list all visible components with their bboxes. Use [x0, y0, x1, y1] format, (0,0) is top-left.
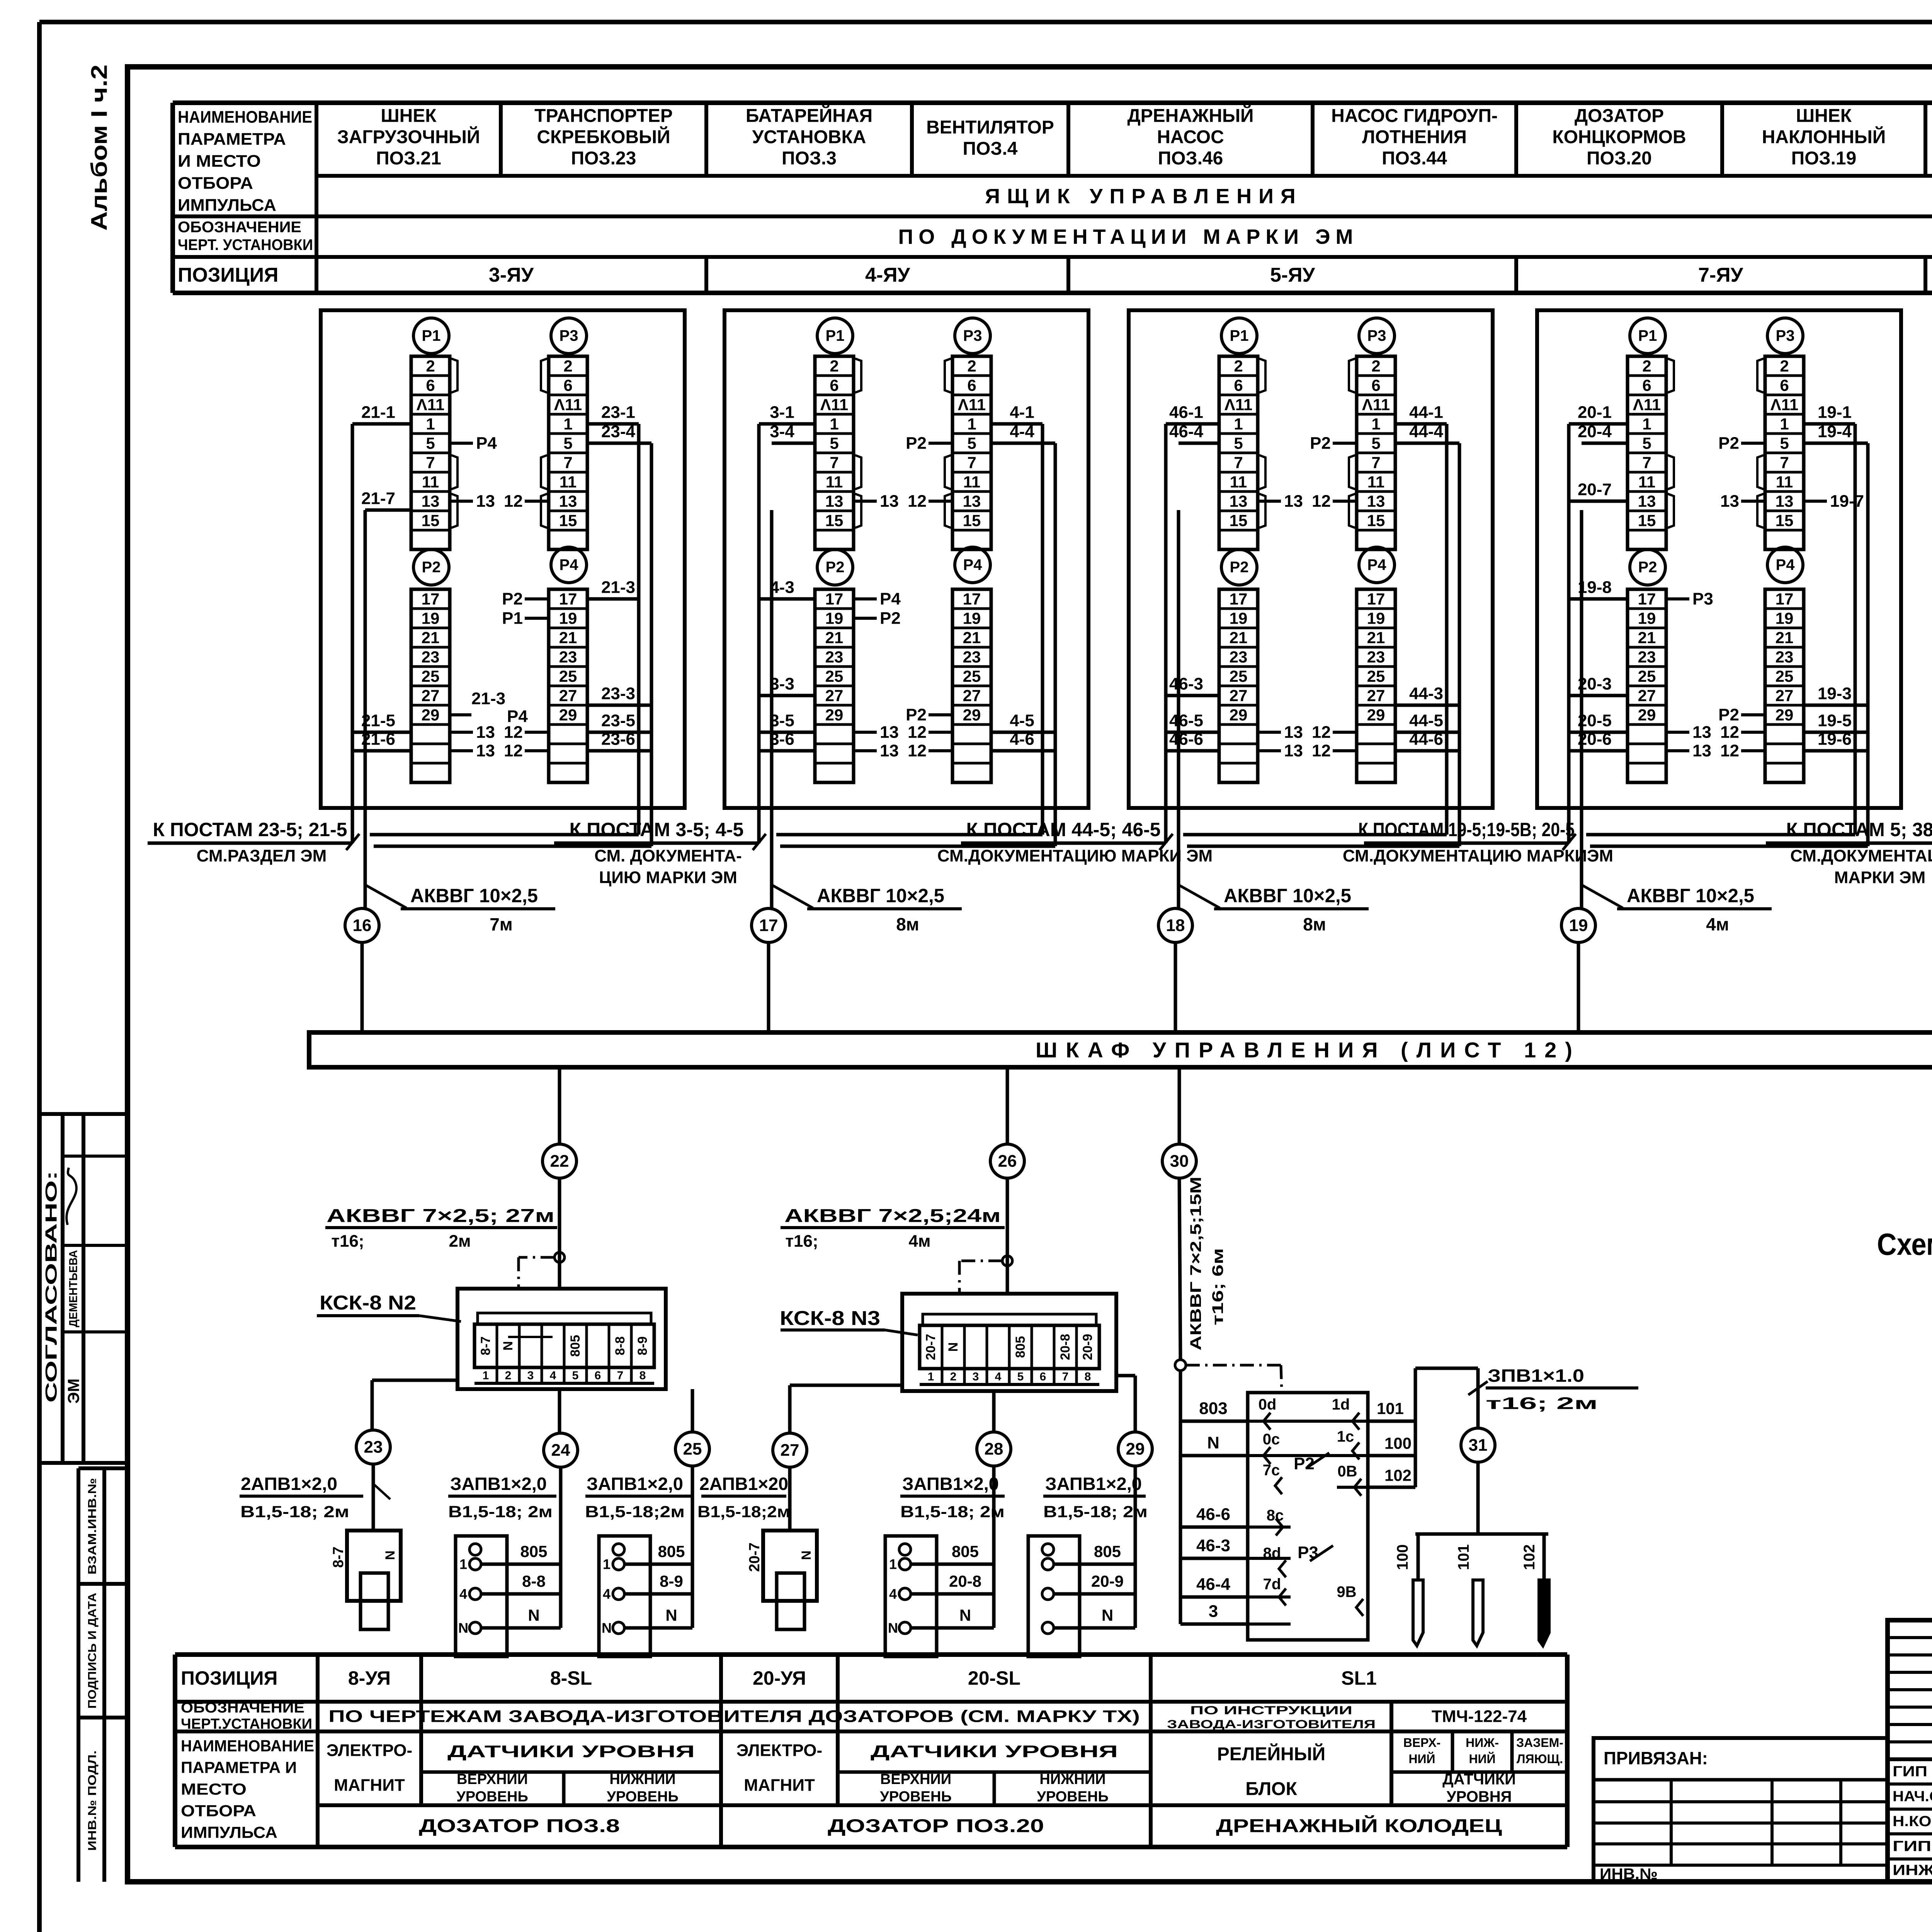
- svg-text:МЕСТО: МЕСТО: [181, 1780, 247, 1798]
- svg-text:20-7: 20-7: [1578, 480, 1612, 499]
- svg-text:46-6: 46-6: [1169, 730, 1203, 749]
- svg-text:11: 11: [963, 473, 980, 491]
- svg-text:46-4: 46-4: [1169, 422, 1204, 441]
- svg-text:22: 22: [550, 1152, 569, 1171]
- svg-text:23-6: 23-6: [601, 730, 635, 749]
- svg-text:3-6: 3-6: [770, 730, 794, 749]
- svg-text:8d: 8d: [1263, 1545, 1281, 1562]
- svg-text:0d: 0d: [1259, 1396, 1277, 1413]
- svg-text:КОНЦКОРМОВ: КОНЦКОРМОВ: [1552, 127, 1686, 148]
- svg-text:P3: P3: [1367, 327, 1386, 344]
- svg-text:11: 11: [826, 473, 843, 491]
- svg-text:25: 25: [1776, 667, 1794, 685]
- svg-text:ШНЕК: ШНЕК: [1796, 106, 1852, 126]
- svg-text:19: 19: [825, 609, 844, 628]
- svg-text:29: 29: [422, 706, 440, 724]
- svg-text:101: 101: [1455, 1544, 1472, 1570]
- svg-text:АКВВГ 10×2,5: АКВВГ 10×2,5: [410, 885, 538, 906]
- svg-text:P1: P1: [422, 327, 441, 344]
- svg-text:8-9: 8-9: [660, 1572, 683, 1590]
- svg-text:21: 21: [422, 629, 440, 647]
- svg-text:Альбом I ч.2: Альбом I ч.2: [87, 65, 112, 231]
- svg-text:N: N: [501, 1341, 515, 1351]
- svg-text:ПАРАМЕТРА: ПАРАМЕТРА: [178, 130, 286, 149]
- svg-text:ОБОЗНАЧЕНИЕ: ОБОЗНАЧЕНИЕ: [181, 1700, 304, 1716]
- svg-text:2: 2: [426, 357, 435, 375]
- svg-text:Λ11: Λ11: [417, 396, 444, 414]
- svg-text:4: 4: [995, 1371, 1002, 1383]
- svg-text:К ПОСТАМ 44-5; 46-5: К ПОСТАМ 44-5; 46-5: [966, 819, 1161, 840]
- svg-text:17: 17: [1776, 590, 1794, 608]
- svg-text:3-ЯУ: 3-ЯУ: [489, 264, 534, 286]
- svg-text:25: 25: [963, 667, 981, 685]
- svg-text:Р1: Р1: [502, 609, 523, 628]
- svg-text:25: 25: [683, 1440, 702, 1459]
- svg-text:2: 2: [1234, 357, 1243, 375]
- svg-text:805: 805: [1013, 1336, 1028, 1358]
- svg-text:5: 5: [1642, 434, 1651, 452]
- svg-text:8-8: 8-8: [522, 1572, 546, 1590]
- svg-text:СМ. ДОКУМЕНТА-: СМ. ДОКУМЕНТА-: [594, 847, 742, 866]
- svg-text:НАКЛОННЫЙ: НАКЛОННЫЙ: [1762, 126, 1886, 148]
- svg-text:23-5: 23-5: [601, 711, 635, 730]
- svg-text:3: 3: [527, 1369, 534, 1382]
- svg-text:СКРЕБКОВЫЙ: СКРЕБКОВЫЙ: [537, 126, 670, 148]
- svg-text:НАИМЕНОВАНИЕ: НАИМЕНОВАНИЕ: [181, 1737, 314, 1755]
- svg-text:19: 19: [1638, 609, 1656, 628]
- svg-text:ДОЗАТОР: ДОЗАТОР: [1575, 106, 1664, 126]
- svg-text:АКВВГ 10×2,5: АКВВГ 10×2,5: [817, 885, 944, 906]
- svg-text:5-ЯУ: 5-ЯУ: [1270, 264, 1315, 286]
- svg-text:25: 25: [422, 667, 440, 685]
- svg-text:19: 19: [1230, 609, 1248, 628]
- svg-text:Λ11: Λ11: [1362, 396, 1390, 414]
- svg-text:44-3: 44-3: [1409, 684, 1443, 703]
- svg-text:13: 13: [1776, 492, 1794, 510]
- svg-text:9В: 9В: [1337, 1583, 1356, 1600]
- svg-text:ПОДПИСЬ И ДАТА: ПОДПИСЬ И ДАТА: [86, 1593, 99, 1709]
- svg-text:РЕЛЕЙНЫЙ: РЕЛЕЙНЫЙ: [1217, 1743, 1325, 1765]
- svg-text:N: N: [888, 1620, 898, 1636]
- svg-text:ИНВ.№ ПОДЛ.: ИНВ.№ ПОДЛ.: [86, 1750, 99, 1851]
- svg-text:12: 12: [1312, 723, 1331, 742]
- svg-text:4-ЯУ: 4-ЯУ: [865, 264, 910, 286]
- svg-text:25: 25: [559, 667, 577, 685]
- svg-text:7: 7: [426, 454, 435, 472]
- svg-text:2: 2: [1780, 357, 1789, 375]
- svg-text:17: 17: [1367, 590, 1385, 608]
- svg-text:ИНЖЕК.: ИНЖЕК.: [1893, 1862, 1932, 1879]
- svg-text:ЗАПВ1×2,0: ЗАПВ1×2,0: [450, 1474, 547, 1494]
- svg-text:20-9: 20-9: [1091, 1572, 1124, 1590]
- svg-text:P1: P1: [1638, 327, 1657, 344]
- svg-text:7: 7: [1371, 454, 1380, 472]
- svg-text:ПО ЧЕРТЕЖАМ ЗАВОДА-ИЗГОТОВИТЕЛ: ПО ЧЕРТЕЖАМ ЗАВОДА-ИЗГОТОВИТЕЛЯ ДОЗАТОРО…: [328, 1707, 1140, 1726]
- svg-text:ДРЕНАЖНЫЙ КОЛОДЕЦ: ДРЕНАЖНЫЙ КОЛОДЕЦ: [1216, 1815, 1502, 1837]
- svg-text:КСК-8 N3: КСК-8 N3: [780, 1307, 880, 1330]
- svg-text:2АПВ1×20: 2АПВ1×20: [699, 1474, 788, 1494]
- svg-text:Λ11: Λ11: [820, 396, 848, 414]
- svg-text:6: 6: [595, 1369, 601, 1382]
- svg-text:P2: P2: [422, 559, 441, 576]
- svg-text:1: 1: [603, 1556, 611, 1572]
- svg-text:27: 27: [781, 1441, 799, 1460]
- svg-text:ЗАПВ1×2,0: ЗАПВ1×2,0: [1045, 1474, 1142, 1494]
- svg-text:19: 19: [1569, 916, 1588, 935]
- svg-text:Λ11: Λ11: [1770, 396, 1798, 414]
- svg-text:ЗАПВ1×2,0: ЗАПВ1×2,0: [902, 1474, 999, 1494]
- svg-text:5: 5: [1371, 434, 1380, 452]
- svg-text:ЛЯЮЩ.: ЛЯЮЩ.: [1517, 1752, 1563, 1766]
- svg-text:4: 4: [603, 1586, 611, 1602]
- svg-text:26: 26: [998, 1152, 1017, 1171]
- svg-text:3-1: 3-1: [770, 403, 794, 422]
- svg-text:ВЕРХНИЙ: ВЕРХНИЙ: [880, 1770, 951, 1787]
- svg-text:ШКАФ УПРАВЛЕНИЯ (ЛИСТ 12): ШКАФ УПРАВЛЕНИЯ (ЛИСТ 12): [1036, 1038, 1581, 1062]
- svg-text:ПРИВЯЗАН:: ПРИВЯЗАН:: [1604, 1748, 1708, 1768]
- svg-text:ДРЕНАЖНЫЙ: ДРЕНАЖНЫЙ: [1127, 105, 1253, 126]
- svg-text:805: 805: [520, 1543, 547, 1561]
- svg-text:7-ЯУ: 7-ЯУ: [1698, 264, 1743, 286]
- svg-text:12: 12: [908, 723, 927, 742]
- svg-text:21-3: 21-3: [471, 689, 505, 708]
- svg-text:13: 13: [422, 492, 440, 510]
- svg-text:4-1: 4-1: [1010, 403, 1034, 422]
- svg-text:18: 18: [1166, 916, 1185, 935]
- svg-text:4-3: 4-3: [770, 578, 794, 597]
- svg-text:МАРКИ ЭМ: МАРКИ ЭМ: [1834, 868, 1925, 887]
- svg-text:ОТБОРА: ОТБОРА: [178, 174, 253, 193]
- svg-text:15: 15: [825, 512, 844, 530]
- svg-text:17: 17: [759, 916, 778, 935]
- svg-text:100: 100: [1384, 1434, 1412, 1452]
- svg-text:20-7: 20-7: [923, 1334, 938, 1360]
- svg-text:1d: 1d: [1332, 1396, 1350, 1413]
- svg-text:23: 23: [364, 1438, 383, 1457]
- svg-text:4-4: 4-4: [1010, 422, 1034, 441]
- svg-text:8-9: 8-9: [635, 1336, 650, 1355]
- svg-text:4: 4: [459, 1586, 467, 1602]
- svg-text:НИЖНИЙ: НИЖНИЙ: [1039, 1770, 1105, 1787]
- svg-text:805: 805: [1094, 1543, 1121, 1561]
- svg-text:27: 27: [1230, 687, 1248, 705]
- svg-text:СМ.РАЗДЕЛ ЭМ: СМ.РАЗДЕЛ ЭМ: [197, 847, 327, 866]
- svg-text:Схема выполнена на листах 8...: Схема выполнена на листах 8...12: [1877, 1227, 1932, 1262]
- svg-text:21-3: 21-3: [601, 578, 635, 597]
- svg-text:1: 1: [1234, 415, 1243, 433]
- svg-text:29: 29: [1367, 706, 1385, 724]
- svg-text:Λ11: Λ11: [958, 396, 986, 414]
- svg-text:Н.КОНТР.: Н.КОНТР.: [1893, 1813, 1932, 1830]
- svg-text:СМ.ДОКУМЕНТАЦИЮ МАРКИЭМ: СМ.ДОКУМЕНТАЦИЮ МАРКИЭМ: [1343, 847, 1613, 866]
- svg-text:0c: 0c: [1263, 1431, 1280, 1448]
- svg-text:23: 23: [825, 648, 844, 666]
- svg-text:46-3: 46-3: [1196, 1536, 1230, 1555]
- svg-text:ГИП: ГИП: [1893, 1764, 1927, 1780]
- svg-text:ЗПВ1×1.0: ЗПВ1×1.0: [1488, 1366, 1584, 1386]
- svg-text:11: 11: [422, 473, 439, 491]
- svg-text:19-7: 19-7: [1830, 492, 1864, 511]
- svg-text:ПОЗ.20: ПОЗ.20: [1587, 148, 1652, 169]
- svg-text:803: 803: [1199, 1399, 1227, 1418]
- svg-text:ДОЗАТОР ПОЗ.8: ДОЗАТОР ПОЗ.8: [419, 1816, 620, 1837]
- svg-text:8-7: 8-7: [478, 1336, 493, 1355]
- svg-text:1c: 1c: [1337, 1428, 1354, 1445]
- svg-text:13: 13: [476, 492, 495, 511]
- svg-text:К ПОСТАМ 5; 38-5: К ПОСТАМ 5; 38-5: [1786, 819, 1932, 840]
- svg-text:15: 15: [1230, 512, 1248, 530]
- svg-text:27: 27: [559, 687, 577, 705]
- svg-text:5: 5: [967, 434, 976, 452]
- svg-text:НАЧ.ОТД.: НАЧ.ОТД.: [1893, 1789, 1932, 1805]
- svg-text:17: 17: [1638, 590, 1656, 608]
- svg-text:ВЗАМ.ИНВ.№: ВЗАМ.ИНВ.№: [86, 1478, 99, 1575]
- svg-text:8-SL: 8-SL: [550, 1667, 592, 1689]
- svg-text:11: 11: [1367, 473, 1384, 491]
- svg-text:12: 12: [908, 742, 927, 760]
- svg-text:P4: P4: [1367, 556, 1387, 573]
- svg-text:ПАРАМЕТРА И: ПАРАМЕТРА И: [181, 1759, 297, 1777]
- svg-text:27: 27: [963, 687, 981, 705]
- svg-text:ИНВ.№: ИНВ.№: [1600, 1866, 1658, 1883]
- svg-text:23-1: 23-1: [601, 403, 635, 422]
- svg-text:P1: P1: [1230, 327, 1249, 344]
- svg-text:21-1: 21-1: [361, 403, 395, 422]
- svg-text:20-3: 20-3: [1578, 675, 1612, 694]
- svg-text:23: 23: [1776, 648, 1794, 666]
- svg-text:P4: P4: [963, 556, 983, 573]
- svg-text:6: 6: [1040, 1371, 1046, 1383]
- svg-text:5: 5: [572, 1369, 579, 1382]
- svg-text:СМ.ДОКУМЕНТАЦИЮ: СМ.ДОКУМЕНТАЦИЮ: [1790, 847, 1932, 866]
- svg-text:НАСОС ГИДРОУП-: НАСОС ГИДРОУП-: [1331, 106, 1498, 126]
- svg-text:Р2: Р2: [906, 434, 927, 453]
- svg-text:2: 2: [950, 1371, 957, 1383]
- svg-text:N: N: [458, 1620, 468, 1636]
- svg-text:В1,5-18; 2м: В1,5-18; 2м: [1043, 1503, 1148, 1521]
- svg-text:6: 6: [563, 376, 572, 395]
- svg-text:Р3: Р3: [1692, 590, 1713, 609]
- svg-text:15: 15: [1776, 512, 1794, 530]
- svg-text:805: 805: [568, 1335, 583, 1357]
- svg-text:НИЙ: НИЙ: [1469, 1752, 1495, 1766]
- svg-text:13: 13: [880, 723, 899, 742]
- svg-text:19-3: 19-3: [1818, 684, 1852, 703]
- svg-text:ДЕМЕНТЬЕВА: ДЕМЕНТЬЕВА: [67, 1250, 80, 1327]
- svg-text:4: 4: [889, 1586, 897, 1602]
- svg-text:23: 23: [422, 648, 440, 666]
- svg-text:19: 19: [1776, 609, 1794, 628]
- svg-text:ПОЗ.21: ПОЗ.21: [376, 148, 441, 169]
- svg-text:Р2: Р2: [880, 609, 901, 628]
- svg-text:21: 21: [559, 629, 577, 647]
- svg-text:7c: 7c: [1263, 1462, 1280, 1479]
- svg-text:В1,5-18; 2м: В1,5-18; 2м: [240, 1503, 349, 1521]
- svg-text:2АПВ1×2,0: 2АПВ1×2,0: [241, 1474, 337, 1494]
- svg-text:20-8: 20-8: [949, 1572, 981, 1590]
- svg-text:7: 7: [1062, 1371, 1069, 1383]
- svg-text:21: 21: [1638, 629, 1656, 647]
- svg-text:21: 21: [1776, 629, 1794, 647]
- svg-text:4м: 4м: [908, 1232, 930, 1251]
- svg-text:1: 1: [830, 415, 838, 433]
- svg-text:АКВВГ 7×2,5;24м: АКВВГ 7×2,5;24м: [784, 1206, 1001, 1226]
- svg-text:29: 29: [1638, 706, 1656, 724]
- svg-text:1: 1: [967, 415, 976, 433]
- svg-text:17: 17: [422, 590, 440, 608]
- svg-text:27: 27: [825, 687, 844, 705]
- svg-text:1: 1: [1371, 415, 1380, 433]
- svg-text:5: 5: [830, 434, 838, 452]
- svg-text:8c: 8c: [1267, 1507, 1284, 1524]
- svg-text:ТМЧ-122-74: ТМЧ-122-74: [1432, 1707, 1527, 1726]
- svg-text:1: 1: [483, 1369, 489, 1382]
- svg-text:13: 13: [1284, 742, 1303, 760]
- svg-text:P1: P1: [826, 327, 845, 344]
- svg-text:УРОВЕНЬ: УРОВЕНЬ: [880, 1789, 952, 1805]
- svg-text:102: 102: [1384, 1466, 1412, 1485]
- svg-text:ВЕРХНИЙ: ВЕРХНИЙ: [457, 1770, 528, 1787]
- svg-text:15: 15: [1367, 512, 1385, 530]
- svg-text:Р2: Р2: [502, 590, 523, 609]
- svg-text:УСТАНОВКА: УСТАНОВКА: [752, 127, 866, 148]
- svg-text:т16; 2м: т16; 2м: [1486, 1394, 1598, 1413]
- svg-text:20-5: 20-5: [1578, 711, 1612, 730]
- svg-text:13: 13: [880, 742, 899, 760]
- svg-text:НАСОС: НАСОС: [1157, 127, 1224, 148]
- svg-text:т16;: т16;: [331, 1232, 364, 1251]
- svg-text:ОБОЗНАЧЕНИЕ: ОБОЗНАЧЕНИЕ: [178, 219, 301, 236]
- svg-text:ПОЗ.44: ПОЗ.44: [1382, 148, 1447, 169]
- svg-text:N: N: [946, 1342, 961, 1352]
- svg-text:НИЖНИЙ: НИЖНИЙ: [609, 1770, 675, 1787]
- svg-text:ВЕРХ-: ВЕРХ-: [1403, 1736, 1441, 1750]
- svg-text:БАТАРЕЙНАЯ: БАТАРЕЙНАЯ: [746, 105, 872, 126]
- svg-text:12: 12: [1312, 742, 1331, 760]
- svg-text:0В: 0В: [1337, 1463, 1357, 1480]
- svg-text:23: 23: [559, 648, 577, 666]
- svg-text:N: N: [602, 1620, 612, 1636]
- svg-text:АКВВГ 10×2,5: АКВВГ 10×2,5: [1627, 885, 1754, 906]
- svg-text:11: 11: [1230, 473, 1247, 491]
- svg-text:ПО ИНСТРУКЦИИ: ПО ИНСТРУКЦИИ: [1190, 1704, 1352, 1717]
- svg-text:27: 27: [1367, 687, 1385, 705]
- svg-text:13: 13: [963, 492, 981, 510]
- svg-text:46-6: 46-6: [1196, 1505, 1230, 1524]
- svg-text:7: 7: [967, 454, 976, 472]
- svg-text:2: 2: [1642, 357, 1651, 375]
- svg-text:т16; 6м: т16; 6м: [1209, 1248, 1226, 1325]
- svg-text:23: 23: [963, 648, 981, 666]
- svg-text:6: 6: [1780, 376, 1789, 395]
- svg-text:ЗАГРУЗОЧНЫЙ: ЗАГРУЗОЧНЫЙ: [337, 126, 480, 148]
- svg-text:7: 7: [1780, 454, 1789, 472]
- svg-text:ДАТЧИКИ УРОВНЯ: ДАТЧИКИ УРОВНЯ: [871, 1742, 1118, 1761]
- svg-text:N: N: [383, 1551, 398, 1560]
- svg-text:ПОЗ.23: ПОЗ.23: [571, 148, 636, 169]
- svg-text:16: 16: [353, 916, 372, 935]
- svg-text:SL1: SL1: [1341, 1667, 1377, 1689]
- svg-text:44-5: 44-5: [1409, 711, 1443, 730]
- svg-text:6: 6: [426, 376, 435, 395]
- svg-text:20-4: 20-4: [1578, 422, 1612, 441]
- svg-text:НИЙ: НИЙ: [1408, 1752, 1435, 1766]
- svg-text:15: 15: [422, 512, 440, 530]
- svg-text:29: 29: [963, 706, 981, 724]
- svg-text:НАИМЕНОВАНИЕ: НАИМЕНОВАНИЕ: [178, 108, 312, 127]
- svg-text:1: 1: [563, 415, 572, 433]
- svg-text:К ПОСТАМ 19-5;19-5В; 20-5: К ПОСТАМ 19-5;19-5В; 20-5: [1358, 819, 1575, 840]
- svg-text:19-8: 19-8: [1578, 578, 1612, 597]
- svg-text:ЧЕРТ. УСТАНОВКИ: ЧЕРТ. УСТАНОВКИ: [178, 236, 313, 253]
- svg-text:4: 4: [550, 1369, 556, 1382]
- svg-text:20-1: 20-1: [1578, 403, 1612, 422]
- svg-text:УРОВНЯ: УРОВНЯ: [1447, 1788, 1512, 1805]
- svg-text:23: 23: [1230, 648, 1248, 666]
- svg-text:19-4: 19-4: [1818, 422, 1852, 441]
- svg-text:ЗАЗЕМ-: ЗАЗЕМ-: [1516, 1736, 1563, 1750]
- svg-text:29: 29: [1230, 706, 1248, 724]
- svg-text:ЭЛЕКТРО-: ЭЛЕКТРО-: [736, 1741, 822, 1760]
- svg-text:6: 6: [830, 376, 838, 395]
- svg-text:21-5: 21-5: [361, 711, 395, 730]
- svg-text:7: 7: [563, 454, 572, 472]
- svg-text:P2: P2: [1230, 559, 1249, 576]
- svg-text:12: 12: [504, 742, 523, 760]
- svg-text:13: 13: [476, 723, 495, 742]
- svg-text:N: N: [528, 1606, 539, 1624]
- svg-text:44-1: 44-1: [1409, 403, 1443, 422]
- svg-text:19: 19: [422, 609, 440, 628]
- svg-text:25: 25: [1230, 667, 1248, 685]
- svg-text:5: 5: [1017, 1371, 1024, 1383]
- svg-text:2: 2: [505, 1369, 512, 1382]
- svg-text:ДОЗАТОР ПОЗ.20: ДОЗАТОР ПОЗ.20: [828, 1816, 1044, 1837]
- svg-text:P3: P3: [1776, 327, 1795, 344]
- svg-text:ЭМ: ЭМ: [65, 1379, 83, 1404]
- svg-text:К ПОСТАМ 3-5; 4-5: К ПОСТАМ 3-5; 4-5: [570, 819, 744, 840]
- svg-text:12: 12: [504, 492, 523, 511]
- svg-text:30: 30: [1170, 1152, 1189, 1171]
- svg-text:ИМПУЛЬСА: ИМПУЛЬСА: [178, 196, 276, 215]
- svg-text:20-7: 20-7: [747, 1543, 763, 1572]
- svg-text:6: 6: [967, 376, 976, 395]
- svg-text:УРОВЕНЬ: УРОВЕНЬ: [1037, 1789, 1109, 1805]
- svg-text:15: 15: [963, 512, 981, 530]
- svg-text:2: 2: [563, 357, 572, 375]
- svg-text:5: 5: [1780, 434, 1789, 452]
- svg-text:И МЕСТО: И МЕСТО: [178, 152, 261, 171]
- svg-text:5: 5: [1234, 434, 1243, 452]
- svg-text:ЯЩИК УПРАВЛЕНИЯ: ЯЩИК УПРАВЛЕНИЯ: [985, 185, 1302, 208]
- svg-text:101: 101: [1377, 1400, 1404, 1418]
- svg-text:19: 19: [963, 609, 981, 628]
- svg-text:19: 19: [559, 609, 577, 628]
- svg-text:ПОЗ.46: ПОЗ.46: [1158, 148, 1223, 169]
- svg-text:20-8: 20-8: [1058, 1334, 1073, 1360]
- svg-text:21: 21: [963, 629, 981, 647]
- svg-text:АКВВГ 10×2,5: АКВВГ 10×2,5: [1224, 885, 1351, 906]
- svg-text:12: 12: [1720, 742, 1739, 760]
- svg-text:8-7: 8-7: [330, 1547, 347, 1568]
- svg-text:8м: 8м: [896, 914, 919, 934]
- svg-text:46-4: 46-4: [1196, 1575, 1231, 1594]
- svg-text:ПОЗ.3: ПОЗ.3: [782, 148, 837, 169]
- svg-text:Λ11: Λ11: [1225, 396, 1252, 414]
- svg-text:1: 1: [459, 1556, 467, 1572]
- svg-text:2: 2: [1371, 357, 1380, 375]
- svg-text:Р2: Р2: [1310, 434, 1331, 453]
